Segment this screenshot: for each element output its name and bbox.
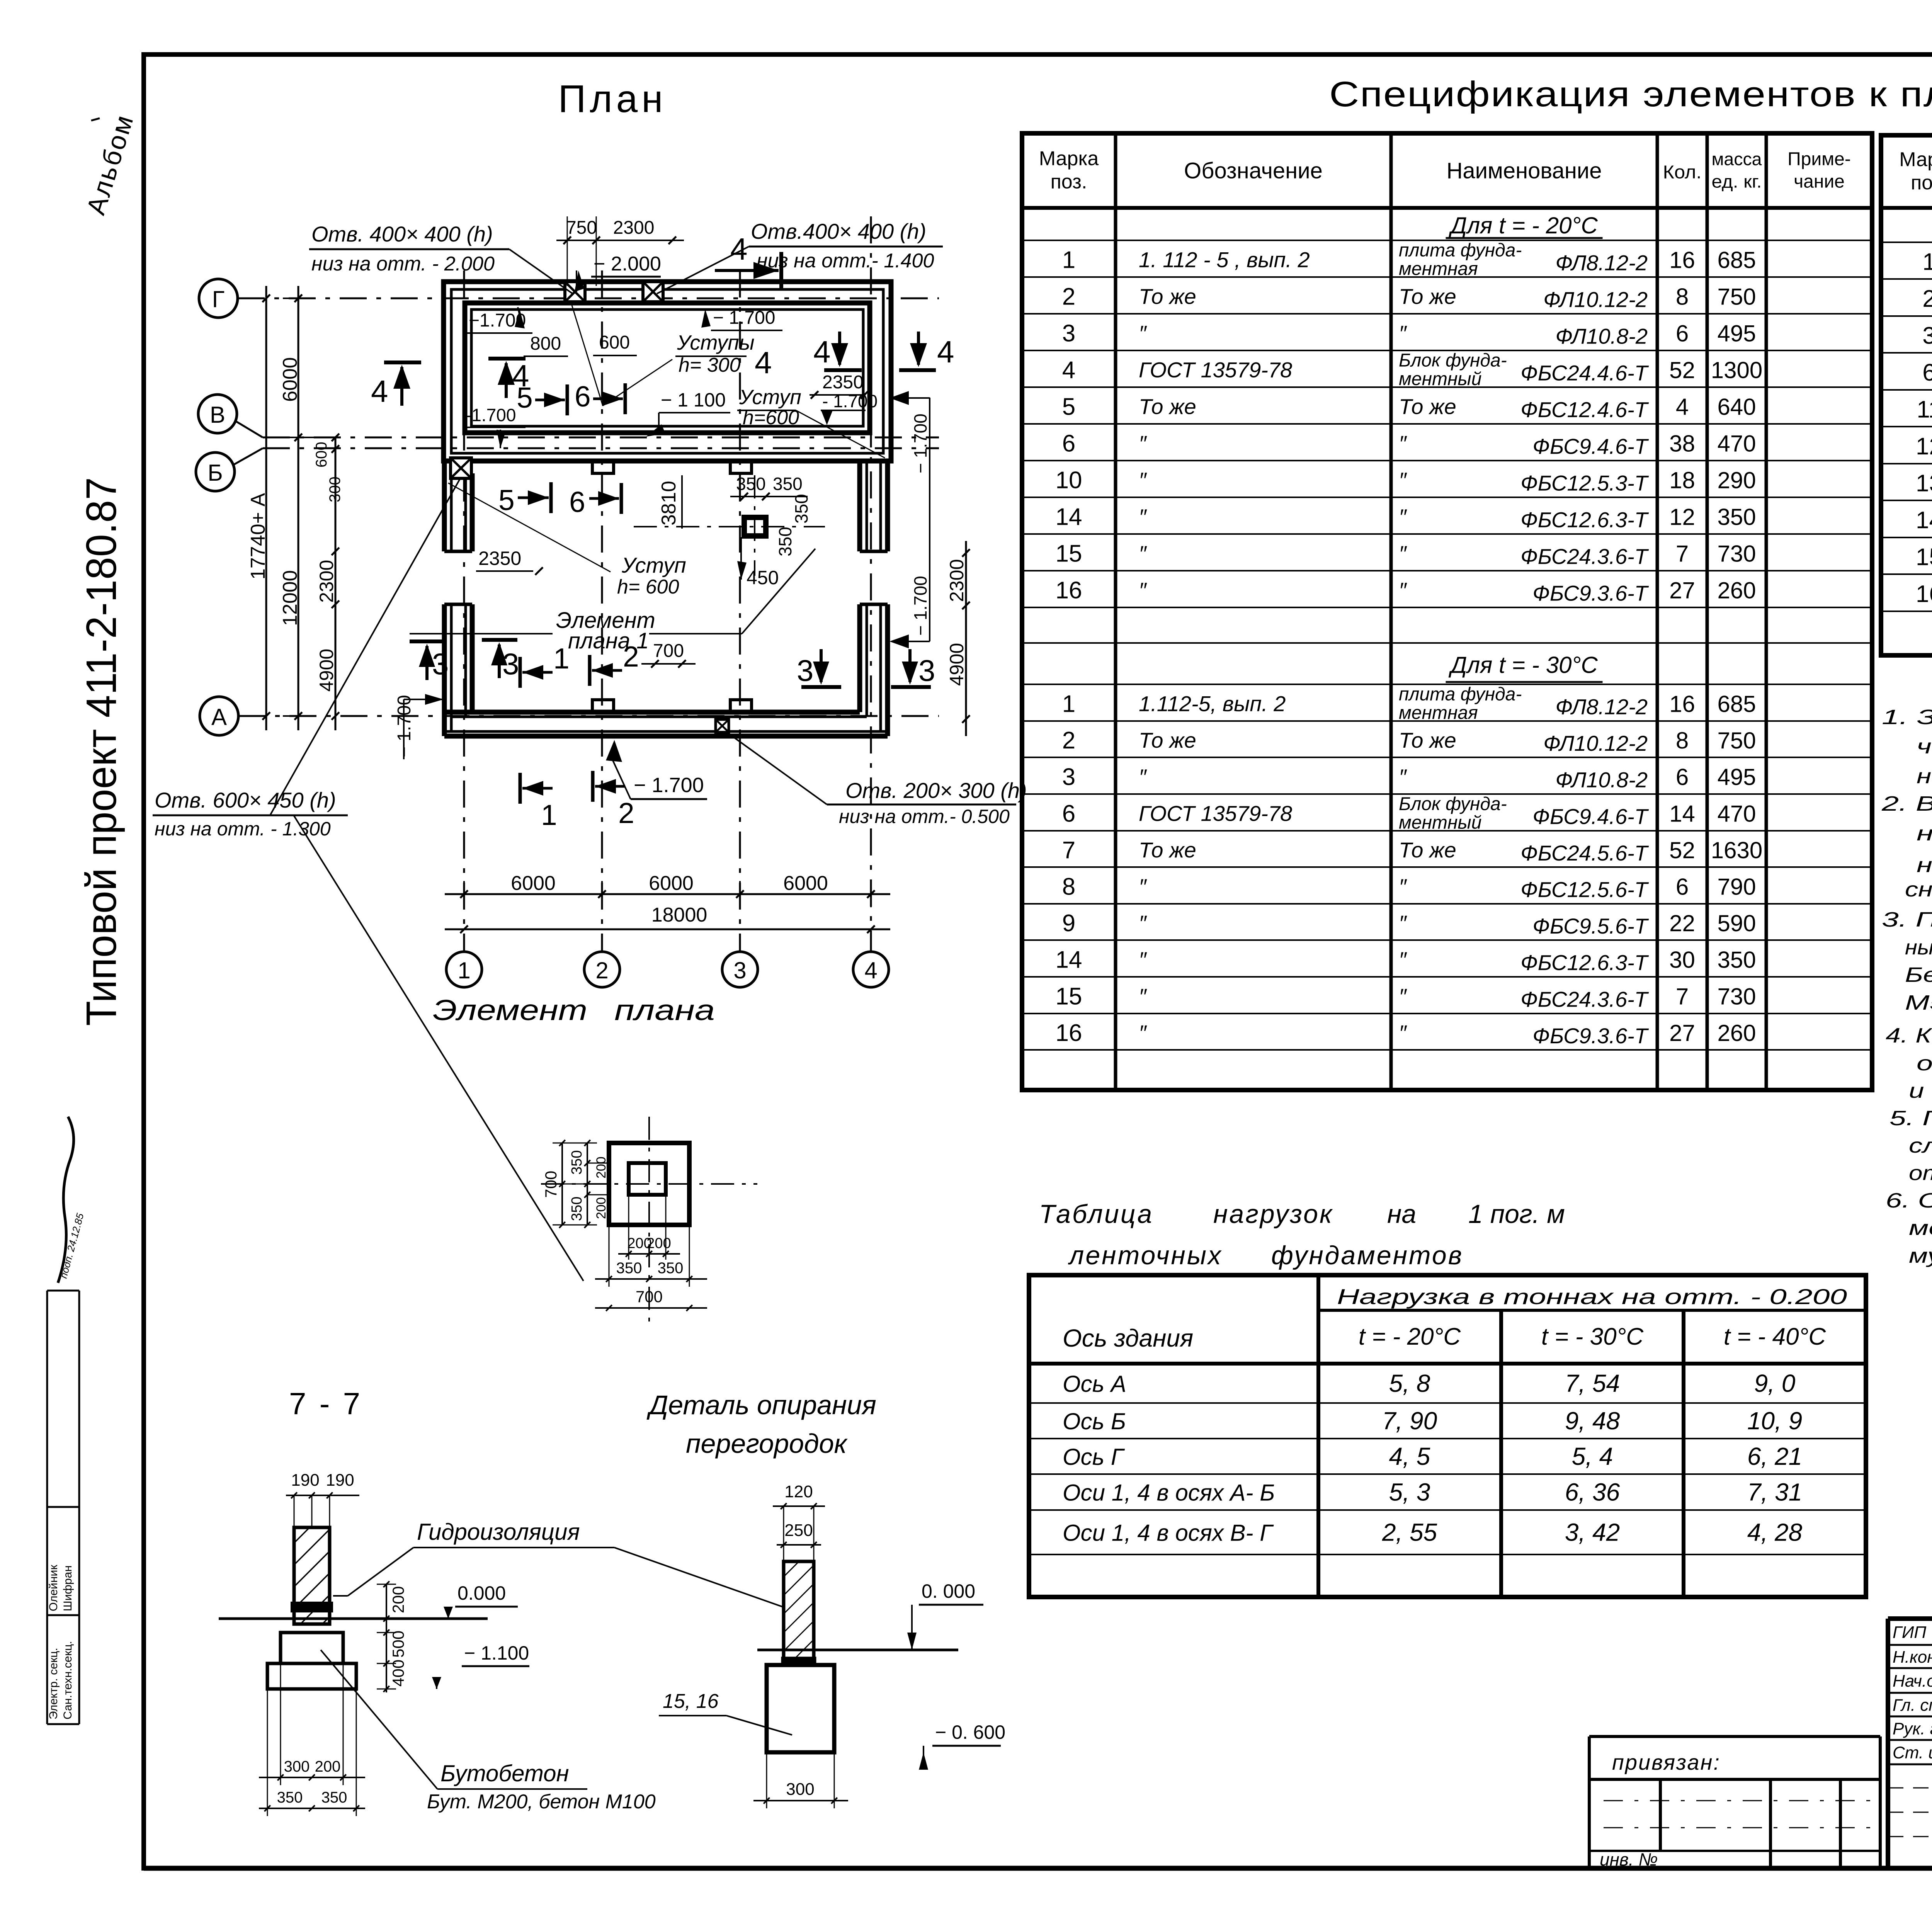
svg-text:5, 3: 5, 3 — [1389, 1478, 1430, 1506]
svg-text:ментный: ментный — [1399, 369, 1481, 389]
partition detail wall (hatched) — [784, 1561, 814, 1665]
svg-text:470: 470 — [1717, 801, 1756, 827]
svg-text:ФБС12.4.6-Т: ФБС12.4.6-Т — [1520, 398, 1649, 422]
svg-text:привязан:: привязан: — [1612, 1750, 1721, 1774]
svg-text:1300: 1300 — [1711, 357, 1762, 383]
pier Элемент плана 1 (small rectangle) — [634, 475, 825, 576]
svg-text:750: 750 — [1717, 284, 1756, 310]
partition detail level 0.000 — [907, 1580, 983, 1650]
svg-text:Отв. 400× 400 (h): Отв. 400× 400 (h) — [311, 222, 493, 246]
ledge notch on bottom wall at axis 2 — [592, 700, 614, 712]
svg-text:8: 8 — [1676, 728, 1689, 753]
section mark 6 (upper) with arrow — [575, 380, 625, 414]
svg-text:260: 260 — [1717, 578, 1756, 604]
svg-text:15: 15 — [1056, 541, 1082, 567]
svg-text:250: 250 — [784, 1521, 813, 1540]
svg-text:300: 300 — [284, 1758, 310, 1775]
partition detail bottom dimension 300 — [753, 1752, 848, 1808]
svg-text:″: ″ — [1139, 1020, 1147, 1045]
svg-text:2: 2 — [618, 797, 634, 829]
section mark 4 (far right, arrow down) — [899, 332, 954, 370]
svg-text:Рук. гр.: Рук. гр. — [1893, 1719, 1932, 1738]
svg-text:8: 8 — [1676, 284, 1689, 310]
right dimension line (vertical chain 2300/4900) — [946, 541, 970, 736]
svg-text:ФЛ10.12-2: ФЛ10.12-2 — [1543, 731, 1648, 755]
svg-text:ед. кг.: ед. кг. — [1712, 172, 1762, 192]
svg-text:15: 15 — [1056, 983, 1082, 1010]
svg-text:6: 6 — [1922, 359, 1932, 386]
svg-text:ФБС9.4.6-Т: ФБС9.4.6-Т — [1532, 804, 1649, 829]
svg-text:″: ″ — [1399, 321, 1407, 345]
load table grid — [1029, 1275, 1866, 1597]
section mark 4 (label near Уступы) — [755, 345, 772, 380]
svg-text:1: 1 — [541, 799, 557, 831]
svg-text:То же: То же — [1399, 395, 1456, 419]
svg-text:− 1.700: − 1.700 — [910, 576, 930, 636]
title План — [558, 77, 667, 121]
left margin label Типовой проект 411-2-180.87 (rotated) — [78, 477, 125, 1026]
svg-text:непучинистые, непросадочные: непучинистые, непросадочные грунты со сл… — [1917, 822, 1932, 845]
svg-text:350: 350 — [569, 1197, 585, 1221]
svg-text:То же: То же — [1139, 838, 1196, 862]
svg-text:″: ″ — [1399, 911, 1407, 935]
svg-text:″: ″ — [1139, 505, 1147, 529]
title block outer and staff table grid — [1888, 1619, 1932, 1868]
svg-text:7 - 7: 7 - 7 — [289, 1386, 362, 1421]
label Элемент плана 1 with leader — [410, 549, 815, 653]
svg-text:ные блоки укладывать на выр: ные блоки укладывать на выравненную песч… — [1905, 936, 1932, 959]
svg-text:В: В — [210, 402, 225, 428]
svg-text:Для t = - 20°С: Для t = - 20°С — [1448, 213, 1598, 238]
svg-text:5. Горизонтальную гидроизол: 5. Горизонтальную гидроизоляцию стен вып… — [1889, 1107, 1932, 1130]
svg-text:14: 14 — [1916, 507, 1932, 534]
svg-text:3: 3 — [1062, 320, 1075, 347]
svg-text:Обозначение: Обозначение — [1184, 158, 1323, 184]
ledge notch on Б wall below axis 3 — [730, 461, 752, 473]
section mark 3 (inner right, arrow down) — [797, 649, 841, 687]
svg-text:6: 6 — [1676, 874, 1689, 900]
section 7-7 level -1.100 — [432, 1642, 529, 1689]
section mark 4 (top, arrow right) — [715, 232, 781, 289]
svg-text:1: 1 — [553, 642, 570, 675]
svg-text:Уступ: Уступ — [621, 553, 686, 577]
level -1.700 (bottom center) with arrow — [606, 740, 707, 799]
title Спецификация элементов к плану фундаментов — [1329, 75, 1932, 114]
svg-text:12: 12 — [1916, 433, 1932, 460]
label Отв.600х450 with leader lines — [153, 479, 583, 1281]
svg-text:17740+ А: 17740+ А — [247, 493, 269, 580]
svg-text:1.112-5, вып. 2: 1.112-5, вып. 2 — [1139, 692, 1286, 716]
svg-text:То же: То же — [1399, 838, 1456, 862]
svg-text:15: 15 — [1916, 544, 1932, 571]
section mark 3 (inner left, arrow up) — [482, 640, 519, 681]
svg-text:12000: 12000 — [279, 570, 301, 626]
svg-text:3810: 3810 — [658, 481, 680, 526]
svg-text:260: 260 — [1717, 1020, 1756, 1046]
svg-text:495: 495 — [1717, 764, 1756, 790]
svg-text:Гл. спец: Гл. спец — [1893, 1696, 1932, 1715]
svg-text:ФБС24.5.6-Т: ФБС24.5.6-Т — [1520, 841, 1649, 865]
label Гидроизоляция with leaders — [333, 1519, 784, 1607]
svg-text:495: 495 — [1717, 321, 1756, 347]
svg-text:350: 350 — [658, 1260, 684, 1277]
left specification table header text — [1039, 148, 1851, 193]
section mark 3 (right, arrow down) — [891, 649, 935, 687]
svg-text:700: 700 — [542, 1171, 560, 1198]
svg-text:120: 120 — [784, 1482, 813, 1501]
svg-text:7: 7 — [1676, 541, 1689, 567]
level label -1.100 with elbow leader — [646, 389, 730, 437]
svg-text:Типовой проект 411-2-180.87: Типовой проект 411-2-180.87 — [78, 477, 125, 1026]
svg-text:5, 4: 5, 4 — [1572, 1442, 1613, 1470]
svg-text:местным талым грунтом бе: местным талым грунтом без включений стро… — [1909, 1216, 1932, 1240]
svg-text:6: 6 — [575, 380, 591, 413]
svg-text:10: 10 — [1056, 467, 1082, 494]
svg-text:″: ″ — [1139, 765, 1147, 789]
svg-text:2. В качестве основания фу: 2. В качестве основания фундаментов прин… — [1881, 792, 1932, 815]
svg-text:и со стороны грунта прома: и со стороны грунта промазать горячим би… — [1909, 1079, 1932, 1102]
svg-text:Отв.400× 400 (h): Отв.400× 400 (h) — [751, 219, 926, 243]
axis line 4 (vertical) — [870, 216, 872, 951]
svg-text:То же: То же — [1399, 728, 1456, 752]
svg-text:190: 190 — [291, 1471, 319, 1490]
section 7-7 waterproofing band — [292, 1603, 332, 1611]
svg-text:″: ″ — [1399, 431, 1407, 456]
right specification table header text — [1899, 148, 1932, 194]
svg-text:16: 16 — [1669, 691, 1695, 717]
svg-text:План: План — [558, 77, 667, 121]
svg-text:ментная: ментная — [1399, 259, 1478, 279]
svg-text:30: 30 — [1669, 947, 1695, 973]
svg-text:6000: 6000 — [279, 357, 301, 402]
svg-text:- 1.700: - 1.700 — [822, 391, 878, 411]
svg-text:18000: 18000 — [651, 904, 707, 926]
svg-text:6: 6 — [569, 486, 585, 518]
svg-text:2300: 2300 — [316, 560, 337, 603]
svg-text:ФБС9.4.6-Т: ФБС9.4.6-Т — [1532, 434, 1649, 459]
svg-text:9, 48: 9, 48 — [1565, 1407, 1620, 1435]
ledge notch on bottom wall at axis 3 — [730, 700, 752, 712]
svg-text:То же: То же — [1139, 728, 1196, 752]
dimension 800 (top wall ledge) — [524, 333, 568, 356]
section 7-7 wall (hatched) — [294, 1527, 330, 1624]
svg-text:поз.: поз. — [1051, 171, 1087, 193]
svg-text:чание: чание — [1794, 172, 1845, 192]
detail title Деталь опирания перегородок — [646, 1390, 876, 1459]
svg-text:300: 300 — [786, 1780, 814, 1799]
detail Элемент плана outer square — [609, 1143, 689, 1225]
opening Отв.200х300 X mark on bottom wall — [716, 719, 729, 732]
svg-text:6, 21: 6, 21 — [1747, 1442, 1802, 1470]
svg-text:5: 5 — [517, 381, 533, 414]
svg-text:Элемент: Элемент — [433, 994, 587, 1026]
section 7-7 top dimensions 190 190 — [286, 1471, 359, 1527]
svg-text:− 1.100: − 1.100 — [464, 1642, 529, 1664]
svg-text:6: 6 — [1676, 764, 1689, 790]
svg-text:ФБС9.5.6-Т: ФБС9.5.6-Т — [1532, 914, 1649, 938]
svg-text:Нагрузка в тоннах на отт.: Нагрузка в тоннах на отт. - 0.200 — [1337, 1284, 1847, 1309]
svg-text:Альбом: Альбом — [81, 111, 139, 218]
svg-text:8: 8 — [1062, 874, 1075, 900]
bottom dimension line 18000 — [445, 904, 890, 933]
svg-text:ФБС24.4.6-Т: ФБС24.4.6-Т — [1520, 361, 1649, 385]
svg-text:0. 000: 0. 000 — [922, 1580, 975, 1602]
svg-text:2: 2 — [1062, 727, 1075, 754]
left margin signature table — [47, 1291, 79, 1724]
svg-text:Отв. 200× 300 (h): Отв. 200× 300 (h) — [845, 778, 1027, 803]
svg-text:2: 2 — [595, 957, 608, 983]
svg-text:400: 400 — [389, 1660, 407, 1687]
axis line Б — [233, 448, 939, 465]
svg-text:t = - 30°С: t = - 30°С — [1541, 1323, 1644, 1350]
svg-text:Нач.отд.: Нач.отд. — [1893, 1672, 1932, 1690]
bottom dimension line (6000 segments) — [445, 872, 890, 907]
section mark 5 (lower) with arrow — [498, 482, 551, 516]
attachment box привязан — [1589, 1736, 1880, 1868]
right specification table grid — [1881, 135, 1932, 655]
svg-text:ФБС24.3.6-Т: ФБС24.3.6-Т — [1520, 544, 1649, 569]
svg-text:3: 3 — [733, 957, 746, 983]
load table body text — [1063, 1369, 1803, 1546]
svg-text:″: ″ — [1399, 541, 1407, 566]
svg-text:4900: 4900 — [946, 643, 968, 686]
partition detail label 15, 16 with leader — [659, 1690, 792, 1735]
svg-text:″: ″ — [1139, 874, 1147, 899]
section mark 4 (inner left, arrow up) — [488, 359, 529, 398]
svg-text:11: 11 — [1917, 396, 1932, 423]
level label -1.700 (upper right) — [701, 308, 782, 330]
partition detail top dimension 120 — [773, 1482, 825, 1561]
section mark 1 (below plan) — [520, 773, 557, 831]
label Инв. № — [1600, 1849, 1658, 1869]
svg-text:1: 1 — [457, 957, 470, 983]
svg-text:h= 300: h= 300 — [679, 354, 741, 376]
svg-text:350: 350 — [569, 1150, 585, 1175]
svg-text:Уступ: Уступ — [739, 386, 801, 409]
axis circle 3 — [722, 952, 758, 987]
svg-text:4: 4 — [937, 335, 954, 369]
svg-text:200: 200 — [594, 1197, 609, 1219]
svg-text:плита фунда-: плита фунда- — [1399, 684, 1522, 705]
svg-text:низ на отт. - 2.000: низ на отт. - 2.000 — [311, 253, 495, 275]
svg-text:3: 3 — [432, 647, 449, 681]
svg-text:Оси 1, 4 в осях В- Г: Оси 1, 4 в осях В- Г — [1063, 1520, 1274, 1546]
svg-text:Наименование: Наименование — [1446, 158, 1602, 184]
svg-text:350: 350 — [616, 1260, 642, 1277]
svg-text:600: 600 — [599, 332, 630, 353]
svg-text:750: 750 — [1717, 728, 1756, 753]
svg-text:4: 4 — [755, 345, 772, 380]
section 7-7 footing step — [281, 1633, 343, 1663]
svg-text:ФЛ10.8-2: ФЛ10.8-2 — [1555, 768, 1648, 792]
svg-text:0.000: 0.000 — [457, 1582, 506, 1604]
svg-text:790: 790 — [1717, 874, 1756, 900]
svg-text:16: 16 — [1056, 1020, 1082, 1046]
svg-text:2: 2 — [623, 640, 639, 673]
svg-text:″: ″ — [1139, 911, 1147, 935]
svg-text:-1.700: -1.700 — [466, 405, 516, 425]
dimension 2350 (lower left) — [476, 548, 543, 575]
svg-text:4: 4 — [730, 232, 748, 266]
svg-text:16: 16 — [1669, 247, 1695, 273]
svg-text:″: ″ — [1139, 321, 1147, 345]
svg-text:52: 52 — [1669, 837, 1695, 863]
svg-text:Блок фунда-: Блок фунда- — [1399, 794, 1507, 815]
svg-text:700: 700 — [636, 1287, 663, 1306]
label Отв.400х400 (right) with leader — [657, 219, 943, 294]
svg-text:поз.: поз. — [1911, 172, 1932, 194]
left specification table grid — [1022, 133, 1872, 1090]
svg-text:ГОСТ 13579-78: ГОСТ 13579-78 — [1139, 358, 1292, 382]
axis line 3 (vertical) — [739, 270, 741, 951]
svg-text:″: ″ — [1399, 765, 1407, 789]
level label -2.000 with arrow — [575, 253, 661, 292]
svg-text:2350: 2350 — [822, 372, 864, 393]
svg-text:350: 350 — [773, 474, 803, 494]
svg-text:ФЛ8.12-2: ФЛ8.12-2 — [1555, 695, 1648, 719]
svg-text:4: 4 — [813, 335, 831, 369]
svg-text:t = - 40°С: t = - 40°С — [1724, 1323, 1827, 1350]
svg-text:7, 54: 7, 54 — [1565, 1369, 1620, 1397]
svg-text:22: 22 — [1669, 910, 1695, 936]
svg-text:1: 1 — [1062, 691, 1075, 718]
svg-text:ФБС24.3.6-Т: ФБС24.3.6-Т — [1520, 987, 1649, 1012]
svg-text:на: на — [1387, 1199, 1416, 1229]
svg-text:″: ″ — [1399, 505, 1407, 529]
svg-text:4: 4 — [1676, 394, 1689, 420]
svg-text:плита фунда-: плита фунда- — [1399, 240, 1522, 261]
svg-text:750: 750 — [566, 218, 597, 238]
svg-text:А: А — [211, 704, 227, 730]
svg-text:600: 600 — [313, 442, 330, 468]
section mark 1 (inside room) — [520, 642, 570, 688]
svg-text:Шифран: Шифран — [61, 1565, 74, 1611]
svg-text:16: 16 — [1056, 577, 1082, 604]
left specification table body text — [1056, 213, 1763, 1048]
section 7-7 level 0.000 — [444, 1582, 518, 1619]
svg-text:200: 200 — [594, 1156, 609, 1179]
svg-text:То же: То же — [1139, 395, 1196, 419]
level label -1.700 (right side, rotated) with leader arrows — [889, 391, 930, 648]
svg-text:″: ″ — [1139, 578, 1147, 602]
svg-text:Ось А: Ось А — [1063, 1371, 1126, 1397]
svg-text:1: 1 — [1922, 249, 1932, 276]
svg-text:3, 42: 3, 42 — [1565, 1519, 1620, 1546]
svg-text:− 1 100: − 1 100 — [661, 389, 726, 411]
label Уступ h=600 (lower) — [448, 483, 686, 598]
staff table text — [1893, 1622, 1932, 1762]
svg-text:Для t = - 30°С: Для t = - 30°С — [1448, 652, 1598, 678]
left dimension line (vertical chain 600/2300/4900) — [313, 434, 344, 730]
load table title — [1039, 1199, 1565, 1270]
svg-text:ФБС12.6.3-Т: ФБС12.6.3-Т — [1520, 951, 1649, 975]
section 7-7 title — [289, 1386, 362, 1421]
svg-text:слоя цементного раствора с: слоя цементного раствора состава 1:2 тол… — [1909, 1134, 1932, 1157]
svg-text:t = - 20°С: t = - 20°С — [1359, 1323, 1461, 1350]
svg-text:″: ″ — [1399, 874, 1407, 899]
svg-text:ментная: ментная — [1399, 703, 1478, 723]
svg-text:9, 0: 9, 0 — [1754, 1369, 1796, 1397]
section 7-7 bottom dimensions — [259, 1663, 365, 1816]
svg-text:″: ″ — [1139, 431, 1147, 456]
svg-text:Марка: Марка — [1899, 148, 1932, 171]
level -1.700 (bottom left, rotated) — [394, 694, 444, 759]
svg-text:1. За отметку 0. 000 прин: 1. За отметку 0. 000 принята отметка уро… — [1882, 706, 1932, 729]
svg-text:6000: 6000 — [783, 872, 828, 895]
svg-text:7: 7 — [1062, 837, 1075, 864]
svg-text:Сан.техн.секц.: Сан.техн.секц. — [61, 1641, 74, 1719]
svg-text:мусора с уплотнением сло: мусора с уплотнением слоями не более 30 … — [1909, 1244, 1932, 1267]
svg-text:3: 3 — [797, 653, 813, 687]
svg-text:3: 3 — [1922, 323, 1932, 349]
label Уступ h=600 (upper) with leader — [737, 386, 885, 458]
section mark 4 (upper right, arrow down) — [813, 332, 862, 370]
opening Отв.400х400 in top wall (left) with X mark — [565, 282, 585, 302]
svg-text:10, 9: 10, 9 — [1747, 1407, 1802, 1435]
svg-text:14: 14 — [1056, 504, 1082, 531]
dimension 750/2300 above top wall — [556, 216, 684, 286]
svg-text:200: 200 — [389, 1586, 407, 1613]
lower block bottom wall (double line) — [444, 712, 888, 736]
partition detail dimension 250 — [777, 1521, 821, 1548]
dimension 600 (top wall ledge) — [593, 332, 637, 355]
svg-text:ФЛ10.12-2: ФЛ10.12-2 — [1543, 287, 1648, 312]
svg-text:350: 350 — [1717, 947, 1756, 973]
svg-text:6, 36: 6, 36 — [1565, 1478, 1620, 1506]
svg-text:− 1.700: − 1.700 — [910, 413, 930, 473]
section mark 5 (upper) with arrow — [517, 381, 567, 415]
svg-text:350: 350 — [321, 1789, 347, 1806]
svg-text:h= 600: h= 600 — [617, 576, 679, 598]
svg-text:7, 90: 7, 90 — [1382, 1407, 1437, 1435]
axis circle Г — [199, 279, 238, 318]
svg-text:Бут. М200, бетон М100: Бут. М200, бетон М100 — [427, 1791, 656, 1813]
svg-text:″: ″ — [1399, 1020, 1407, 1045]
svg-text:2: 2 — [1062, 284, 1075, 310]
svg-text:Б: Б — [207, 460, 223, 486]
svg-text:450: 450 — [747, 567, 779, 588]
svg-text:27: 27 — [1669, 578, 1695, 604]
svg-text:1. 112 - 5 , вып. 2: 1. 112 - 5 , вып. 2 — [1139, 248, 1310, 272]
svg-text:обожженного кирпича М100 на: обожженного кирпича М100 на цементном ра… — [1917, 1052, 1932, 1075]
svg-text:6: 6 — [1062, 430, 1075, 457]
left margin signature scrawl — [58, 1117, 86, 1283]
svg-text:730: 730 — [1717, 541, 1756, 567]
svg-text:500: 500 — [389, 1631, 407, 1658]
svg-text:ФБС9.3.6-Т: ФБС9.3.6-Т — [1532, 1024, 1649, 1048]
label Отв.400х400 (left) with leader — [309, 222, 573, 294]
svg-text:ГОСТ 13579-78: ГОСТ 13579-78 — [1139, 801, 1292, 826]
svg-text:Уступы: Уступы — [677, 331, 755, 354]
svg-text:2300: 2300 — [613, 218, 655, 238]
dimension 700 (lower) — [641, 641, 696, 668]
notes text block — [1881, 706, 1932, 1267]
svg-text:низ на отт. - 1.300: низ на отт. - 1.300 — [155, 818, 331, 840]
svg-text:3: 3 — [502, 647, 519, 681]
svg-text:− 1.700: − 1.700 — [713, 308, 775, 328]
right specification table body text — [1916, 214, 1932, 609]
svg-text:2300: 2300 — [946, 559, 968, 602]
left dimension line total 17740+А — [247, 286, 270, 730]
upper block outer wall (double line) — [444, 282, 891, 461]
svg-text:2: 2 — [1922, 286, 1932, 312]
svg-text:350: 350 — [277, 1789, 303, 1806]
svg-text:Деталь опирания: Деталь опирания — [646, 1390, 876, 1420]
svg-text:Блок фунда-: Блок фунда- — [1399, 350, 1507, 371]
svg-text:сн= 2 кПа ( 0,02кгс/см²), Е =: сн= 2 кПа ( 0,02кгс/см²), Е = 14,7мПа ( … — [1905, 878, 1932, 901]
svg-text:6000: 6000 — [649, 872, 694, 895]
svg-text:подп. 24.12.85: подп. 24.12.85 — [58, 1212, 86, 1279]
